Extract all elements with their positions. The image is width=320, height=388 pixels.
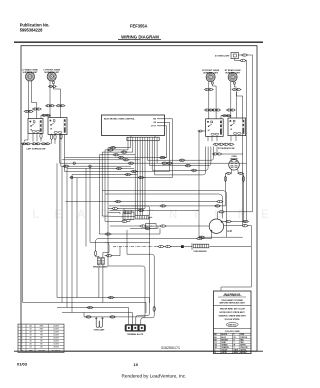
wire — [54, 140, 56, 144]
wire LT rear lead B — [32, 81, 37, 119]
wire bridge — [41, 114, 50, 116]
svg-text:SURFACE UNIT: SURFACE UNIT — [225, 71, 241, 74]
wire down to lower bus — [71, 175, 73, 313]
wire down to lower bus — [56, 163, 58, 297]
oven light box — [231, 53, 239, 59]
wire EOC pin right 1 — [147, 141, 213, 161]
wire bus — [72, 174, 137, 176]
wire — [247, 226, 251, 246]
wire down — [89, 166, 91, 242]
svg-text:Rendered by LeadVenture, Inc.: Rendered by LeadVenture, Inc. — [122, 373, 187, 378]
wire — [117, 208, 145, 210]
wire to terminal block L — [128, 308, 130, 325]
wire down to sensor line — [85, 168, 87, 246]
wire connector — [204, 109, 210, 111]
wire lower bus 1 — [57, 297, 150, 299]
wire connector — [215, 109, 221, 111]
wire connector — [45, 143, 51, 145]
header rule — [14, 41, 263, 43]
wire connector — [213, 143, 220, 145]
wire to motor top — [218, 212, 220, 219]
svg-text:-WARNING-: -WARNING- — [223, 293, 242, 297]
wire — [95, 317, 97, 318]
wire bus — [65, 157, 167, 159]
wire EOC right 3 — [165, 126, 167, 158]
wire oven light lower — [235, 59, 241, 61]
surface unit right front — [202, 70, 219, 82]
wire bus — [102, 238, 197, 240]
svg-text:NOTED FIRST. STRIPE NEXT.: NOTED FIRST. STRIPE NEXT. — [219, 312, 245, 314]
wire — [127, 220, 130, 222]
wire connector — [158, 245, 165, 247]
wire bus — [109, 205, 226, 207]
wire connector — [123, 159, 130, 161]
wire — [225, 204, 227, 206]
svg-text:2100W: 2100W — [53, 325, 59, 327]
wire connector — [115, 200, 122, 202]
wire connector — [185, 165, 192, 167]
wire — [130, 136, 132, 138]
wire connector — [212, 153, 218, 155]
wire connector — [222, 115, 228, 117]
svg-text:H1: H1 — [230, 129, 232, 131]
latch heater element — [135, 216, 149, 220]
wire connector — [165, 245, 172, 247]
wire sensor lead L — [230, 169, 233, 173]
wire connector — [121, 151, 128, 153]
svg-text:OVEN SENSOR: OVEN SENSOR — [193, 251, 207, 253]
wire connector — [196, 237, 203, 239]
wire connector — [144, 227, 151, 229]
wire connector — [107, 149, 114, 151]
wire EOC pin drop — [139, 141, 141, 216]
wire connector — [40, 133, 42, 140]
latch switch box — [146, 224, 157, 229]
wire connector — [223, 143, 230, 145]
wire bus — [65, 170, 170, 172]
svg-text:2600W: 2600W — [53, 338, 59, 340]
wire stub — [83, 313, 85, 317]
terminal block TB1 — [125, 325, 146, 332]
wire — [51, 140, 53, 144]
wire — [231, 220, 247, 222]
wire into switch — [236, 92, 238, 119]
wire to lamp line C — [108, 266, 145, 317]
wire connector — [242, 225, 249, 227]
wire connector — [60, 133, 62, 140]
wire connector — [226, 109, 232, 111]
wire connector — [138, 176, 145, 178]
wire bridge — [40, 115, 42, 118]
svg-text:YEL: YEL — [40, 331, 43, 333]
broil element — [97, 258, 104, 265]
wire — [108, 208, 113, 210]
svg-text:DISCONNECT POWER: DISCONNECT POWER — [222, 300, 244, 302]
wire — [111, 247, 120, 256]
wire — [104, 241, 150, 243]
wire EOC pin drop — [129, 141, 131, 148]
wire — [105, 255, 107, 257]
wire down to lower bus — [76, 178, 78, 298]
svg-text:∗ M: ∗ M — [227, 230, 232, 233]
wire connector — [106, 255, 113, 257]
wire motor 3 — [202, 232, 212, 239]
wire connector — [56, 105, 62, 107]
wire connector — [226, 172, 232, 174]
wire EOC pin drop — [132, 141, 134, 153]
oven frame inner — [105, 194, 223, 219]
wire probe shielded — [113, 246, 159, 248]
wire bus — [70, 177, 173, 179]
wire connector — [216, 200, 223, 202]
wire — [235, 136, 237, 142]
wire connector — [216, 153, 222, 155]
wire connector — [45, 114, 51, 116]
wire — [103, 215, 136, 218]
wire — [145, 303, 147, 314]
wire — [36, 134, 38, 142]
svg-text:2900W: 2900W — [53, 347, 59, 349]
wire — [150, 226, 158, 228]
wire connector — [232, 88, 238, 90]
svg-text:4: 4 — [22, 335, 23, 337]
svg-text:H1: H1 — [50, 129, 52, 131]
wire right column — [198, 131, 200, 237]
wire RT rear lead A — [230, 82, 232, 119]
wire connector — [204, 88, 210, 90]
wire connector — [50, 134, 52, 141]
wire EOC pin drop — [127, 141, 129, 150]
wire EOC pin drop — [156, 141, 158, 164]
wire connector — [198, 130, 204, 132]
wire connector — [52, 85, 57, 87]
svg-text:YELLOW STRIPE.: YELLOW STRIPE. — [224, 319, 240, 321]
svg-text:FEF355A: FEF355A — [130, 23, 148, 28]
wire connector — [31, 143, 37, 145]
wire long run — [66, 201, 218, 203]
wire connector — [228, 143, 235, 145]
wire — [149, 217, 152, 219]
wire curve into element — [104, 242, 109, 250]
wire connector — [125, 173, 132, 175]
junction — [71, 176, 73, 178]
wire — [163, 157, 167, 159]
wire bus — [105, 149, 128, 151]
wire bus — [102, 151, 133, 153]
wire — [184, 246, 192, 248]
wire motor 2 — [224, 225, 243, 227]
wire connector — [113, 154, 120, 156]
wire box exit left — [202, 130, 205, 132]
wire oven light run right — [224, 55, 253, 212]
wire connector — [225, 220, 232, 222]
wire — [52, 84, 54, 86]
wire lower bus 4 — [62, 312, 133, 314]
wire — [216, 136, 218, 141]
infinite switch left front — [48, 118, 67, 135]
wire — [40, 139, 42, 142]
svg-text:YEL: YEL — [40, 335, 43, 337]
svg-text:EXAMPLE: GREEN WIRE WITH: EXAMPLE: GREEN WIRE WITH — [219, 315, 247, 318]
wire connector — [160, 225, 167, 227]
wire drop to cluster — [101, 152, 103, 216]
junction — [89, 165, 91, 167]
surface unit left front — [43, 69, 60, 81]
title underline — [118, 39, 161, 41]
svg-text:LT GY: LT GY — [151, 126, 157, 128]
wire connector — [159, 156, 166, 158]
wire oven light lower run — [246, 61, 247, 222]
wire connector — [241, 54, 248, 56]
wire connector — [230, 109, 236, 111]
wire left long run L1 — [22, 144, 24, 303]
wire connector — [45, 105, 51, 107]
wire EOC pin drop — [142, 141, 144, 216]
bake element comb — [193, 244, 209, 248]
wire connector — [118, 156, 125, 158]
svg-text:1300W: 1300W — [53, 328, 59, 330]
wire — [149, 298, 151, 304]
wire — [207, 136, 209, 141]
wire to terminal block B — [127, 254, 154, 324]
wire — [170, 246, 181, 248]
wire bridge — [230, 116, 232, 118]
wire connector — [242, 220, 249, 222]
wire — [216, 147, 218, 154]
wire GY inside — [157, 125, 165, 127]
svg-text:8: 8 — [22, 347, 23, 349]
EOC pin connector strip — [127, 137, 159, 140]
wire connector — [48, 85, 53, 87]
wire connector — [218, 143, 225, 145]
svg-text:5: 5 — [22, 338, 23, 340]
wire connector — [28, 110, 34, 112]
wire lower bus 2 — [23, 302, 146, 304]
junction — [73, 162, 75, 164]
wire LT rear lead A — [28, 81, 30, 119]
oven frame outer — [103, 191, 227, 238]
wire connector — [235, 88, 241, 90]
surface unit right rear — [225, 69, 241, 82]
terminal pad — [211, 82, 213, 84]
svg-text:5995384228: 5995384228 — [20, 27, 43, 32]
wire — [156, 225, 161, 227]
svg-text:BK/W: BK/W — [234, 352, 239, 354]
wire connector — [179, 159, 186, 161]
svg-text:2100W: 2100W — [53, 331, 59, 333]
svg-text:BROIL ELEMENT: BROIL ELEMENT — [93, 267, 109, 269]
wire drop to cluster — [107, 148, 109, 266]
wire connector — [214, 205, 221, 207]
wire curve into element — [96, 239, 103, 251]
wire connector — [54, 134, 56, 141]
wire — [144, 225, 146, 227]
svg-text:TRACER WIRE: ANY COLOR: TRACER WIRE: ANY COLOR — [220, 308, 246, 311]
wire connector — [49, 105, 55, 107]
wire drop to cluster — [98, 155, 100, 234]
wire LT front lead A — [49, 81, 51, 118]
wire EOC pin right 3 — [152, 141, 208, 171]
wire connector — [211, 109, 217, 111]
diagram border — [21, 46, 257, 352]
wire connector — [109, 316, 116, 318]
wire connector — [191, 169, 198, 171]
wire OR inside — [157, 121, 165, 123]
wire — [32, 134, 34, 142]
wire element lead down — [102, 265, 104, 303]
wire bridge — [220, 116, 222, 119]
wire switch to bus — [64, 135, 66, 172]
wire element lead down — [98, 265, 100, 298]
wire EOC pin drop — [137, 141, 139, 216]
wire bus to terminal block A — [120, 206, 150, 325]
wire connector — [63, 165, 70, 167]
wire — [154, 136, 156, 138]
wire — [221, 201, 223, 203]
svg-text:WHITE: WHITE — [221, 352, 227, 354]
wattage table — [18, 324, 64, 352]
svg-text:SURFACE UNIT: SURFACE UNIT — [23, 71, 39, 74]
wire connector — [24, 110, 30, 112]
wire — [90, 241, 104, 243]
wire — [105, 220, 122, 222]
wire connector — [218, 211, 225, 213]
svg-text:SURFACE UNIT: SURFACE UNIT — [203, 71, 219, 74]
wire to oven lamp and terminal block — [84, 316, 145, 318]
wire drop to cluster — [104, 150, 106, 221]
wire — [199, 236, 243, 238]
wire connector — [198, 236, 205, 238]
wire connector — [242, 176, 244, 183]
probe pad — [181, 245, 184, 248]
svg-text:2: 2 — [22, 328, 23, 330]
wire lower bus 3 — [57, 307, 129, 309]
svg-text:1200W: 1200W — [53, 344, 59, 346]
svg-text:01/03: 01/03 — [17, 362, 28, 367]
infinite switch right front — [206, 119, 224, 137]
wire connector — [85, 316, 92, 318]
wire sensor lead L down — [225, 173, 228, 204]
svg-text:BK/WHT: BK/WHT — [240, 352, 248, 354]
wire connector — [121, 220, 128, 222]
wire connector — [140, 225, 147, 227]
wire connector — [108, 296, 115, 298]
wire connector — [225, 115, 231, 117]
wire connector — [110, 147, 117, 149]
wire RT front lead B — [212, 84, 216, 119]
door switch assembly — [124, 210, 131, 213]
svg-text:COLOR CODE: COLOR CODE — [225, 331, 240, 333]
svg-text:LEADVENTURE: LEADVENTURE — [32, 209, 283, 221]
svg-text:6: 6 — [22, 341, 23, 343]
warning box — [214, 291, 252, 354]
svg-text:LEFT SURFACE SW: LEFT SURFACE SW — [27, 148, 46, 151]
wire switch to long bus — [60, 135, 246, 164]
wire connector — [208, 109, 214, 111]
wire EOC pin right 2 — [150, 141, 211, 166]
wire to lower right — [221, 287, 252, 291]
svg-text:7: 7 — [22, 344, 23, 346]
wire switch to bus — [60, 135, 62, 167]
wire connector — [105, 233, 112, 235]
wire connector — [116, 167, 123, 169]
wire — [103, 250, 109, 258]
svg-text:TERMINAL BLOCK: TERMINAL BLOCK — [127, 333, 144, 336]
wire drop — [126, 230, 128, 254]
wire bus — [67, 167, 134, 169]
wire sensor lead R down — [242, 173, 245, 221]
wire down to lower bus — [66, 168, 68, 307]
wire connector — [153, 306, 155, 313]
svg-text:3: 3 — [22, 331, 23, 333]
wire — [25, 134, 29, 142]
wire probe right — [209, 247, 251, 288]
wire to motor — [165, 225, 209, 227]
wire RT rear lead B long run — [237, 92, 243, 226]
bottom rule — [14, 350, 263, 352]
wire connector — [21, 143, 27, 145]
wire connector — [41, 143, 47, 145]
wire bridge — [221, 115, 231, 117]
wire connector — [238, 172, 244, 174]
svg-text:1300W: 1300W — [53, 335, 59, 337]
svg-text:WIRING DIAGRAM: WIRING DIAGRAM — [121, 34, 159, 39]
wire LT front lead B jog — [53, 87, 60, 117]
wire bus — [61, 165, 131, 167]
wire bridge — [49, 115, 51, 117]
svg-text:OVEN LAMP: OVEN LAMP — [94, 329, 105, 332]
wire — [130, 227, 145, 229]
wire BK inside — [157, 118, 165, 120]
wire connector — [59, 105, 65, 107]
wire EOC pin drop — [134, 141, 136, 216]
svg-text:3000W: 3000W — [53, 341, 59, 343]
electronic oven control U1 — [102, 115, 165, 136]
svg-text:10: 10 — [134, 362, 139, 367]
terminal pad — [52, 82, 54, 84]
wire EOC pin right 4 — [155, 141, 206, 175]
wire — [123, 209, 125, 211]
wire bus — [108, 147, 130, 149]
wire sensor lead R — [237, 169, 239, 173]
wire EOC right 2 — [165, 122, 170, 171]
svg-text:RT SURFACE SW: RT SURFACE SW — [218, 147, 235, 150]
infinite switch left rear — [28, 119, 43, 134]
oven sensor probe connector — [229, 160, 240, 171]
wire connector — [36, 108, 42, 110]
svg-text:BEFORE SERVICING UNIT: BEFORE SERVICING UNIT — [220, 303, 246, 305]
wire oven light to splice — [239, 54, 243, 56]
svg-text:SENSOR: SENSOR — [230, 158, 238, 160]
oven lamp — [95, 318, 104, 327]
wire connector — [128, 162, 135, 164]
wire connector — [224, 176, 226, 183]
wire motor 1 — [222, 220, 227, 222]
motor M1 — [209, 219, 231, 233]
wire — [110, 225, 141, 227]
wire — [230, 136, 232, 142]
wire connector — [94, 250, 96, 257]
wire connector — [32, 108, 38, 110]
wire down to lower bus — [61, 166, 63, 302]
wire EOC right 1 — [165, 119, 173, 178]
surface unit left rear — [22, 68, 38, 81]
wire connector — [138, 209, 145, 211]
wire bus — [110, 209, 200, 211]
wire — [234, 84, 236, 87]
svg-text:1: 1 — [22, 325, 23, 327]
wire EOC pin drop — [144, 141, 146, 209]
